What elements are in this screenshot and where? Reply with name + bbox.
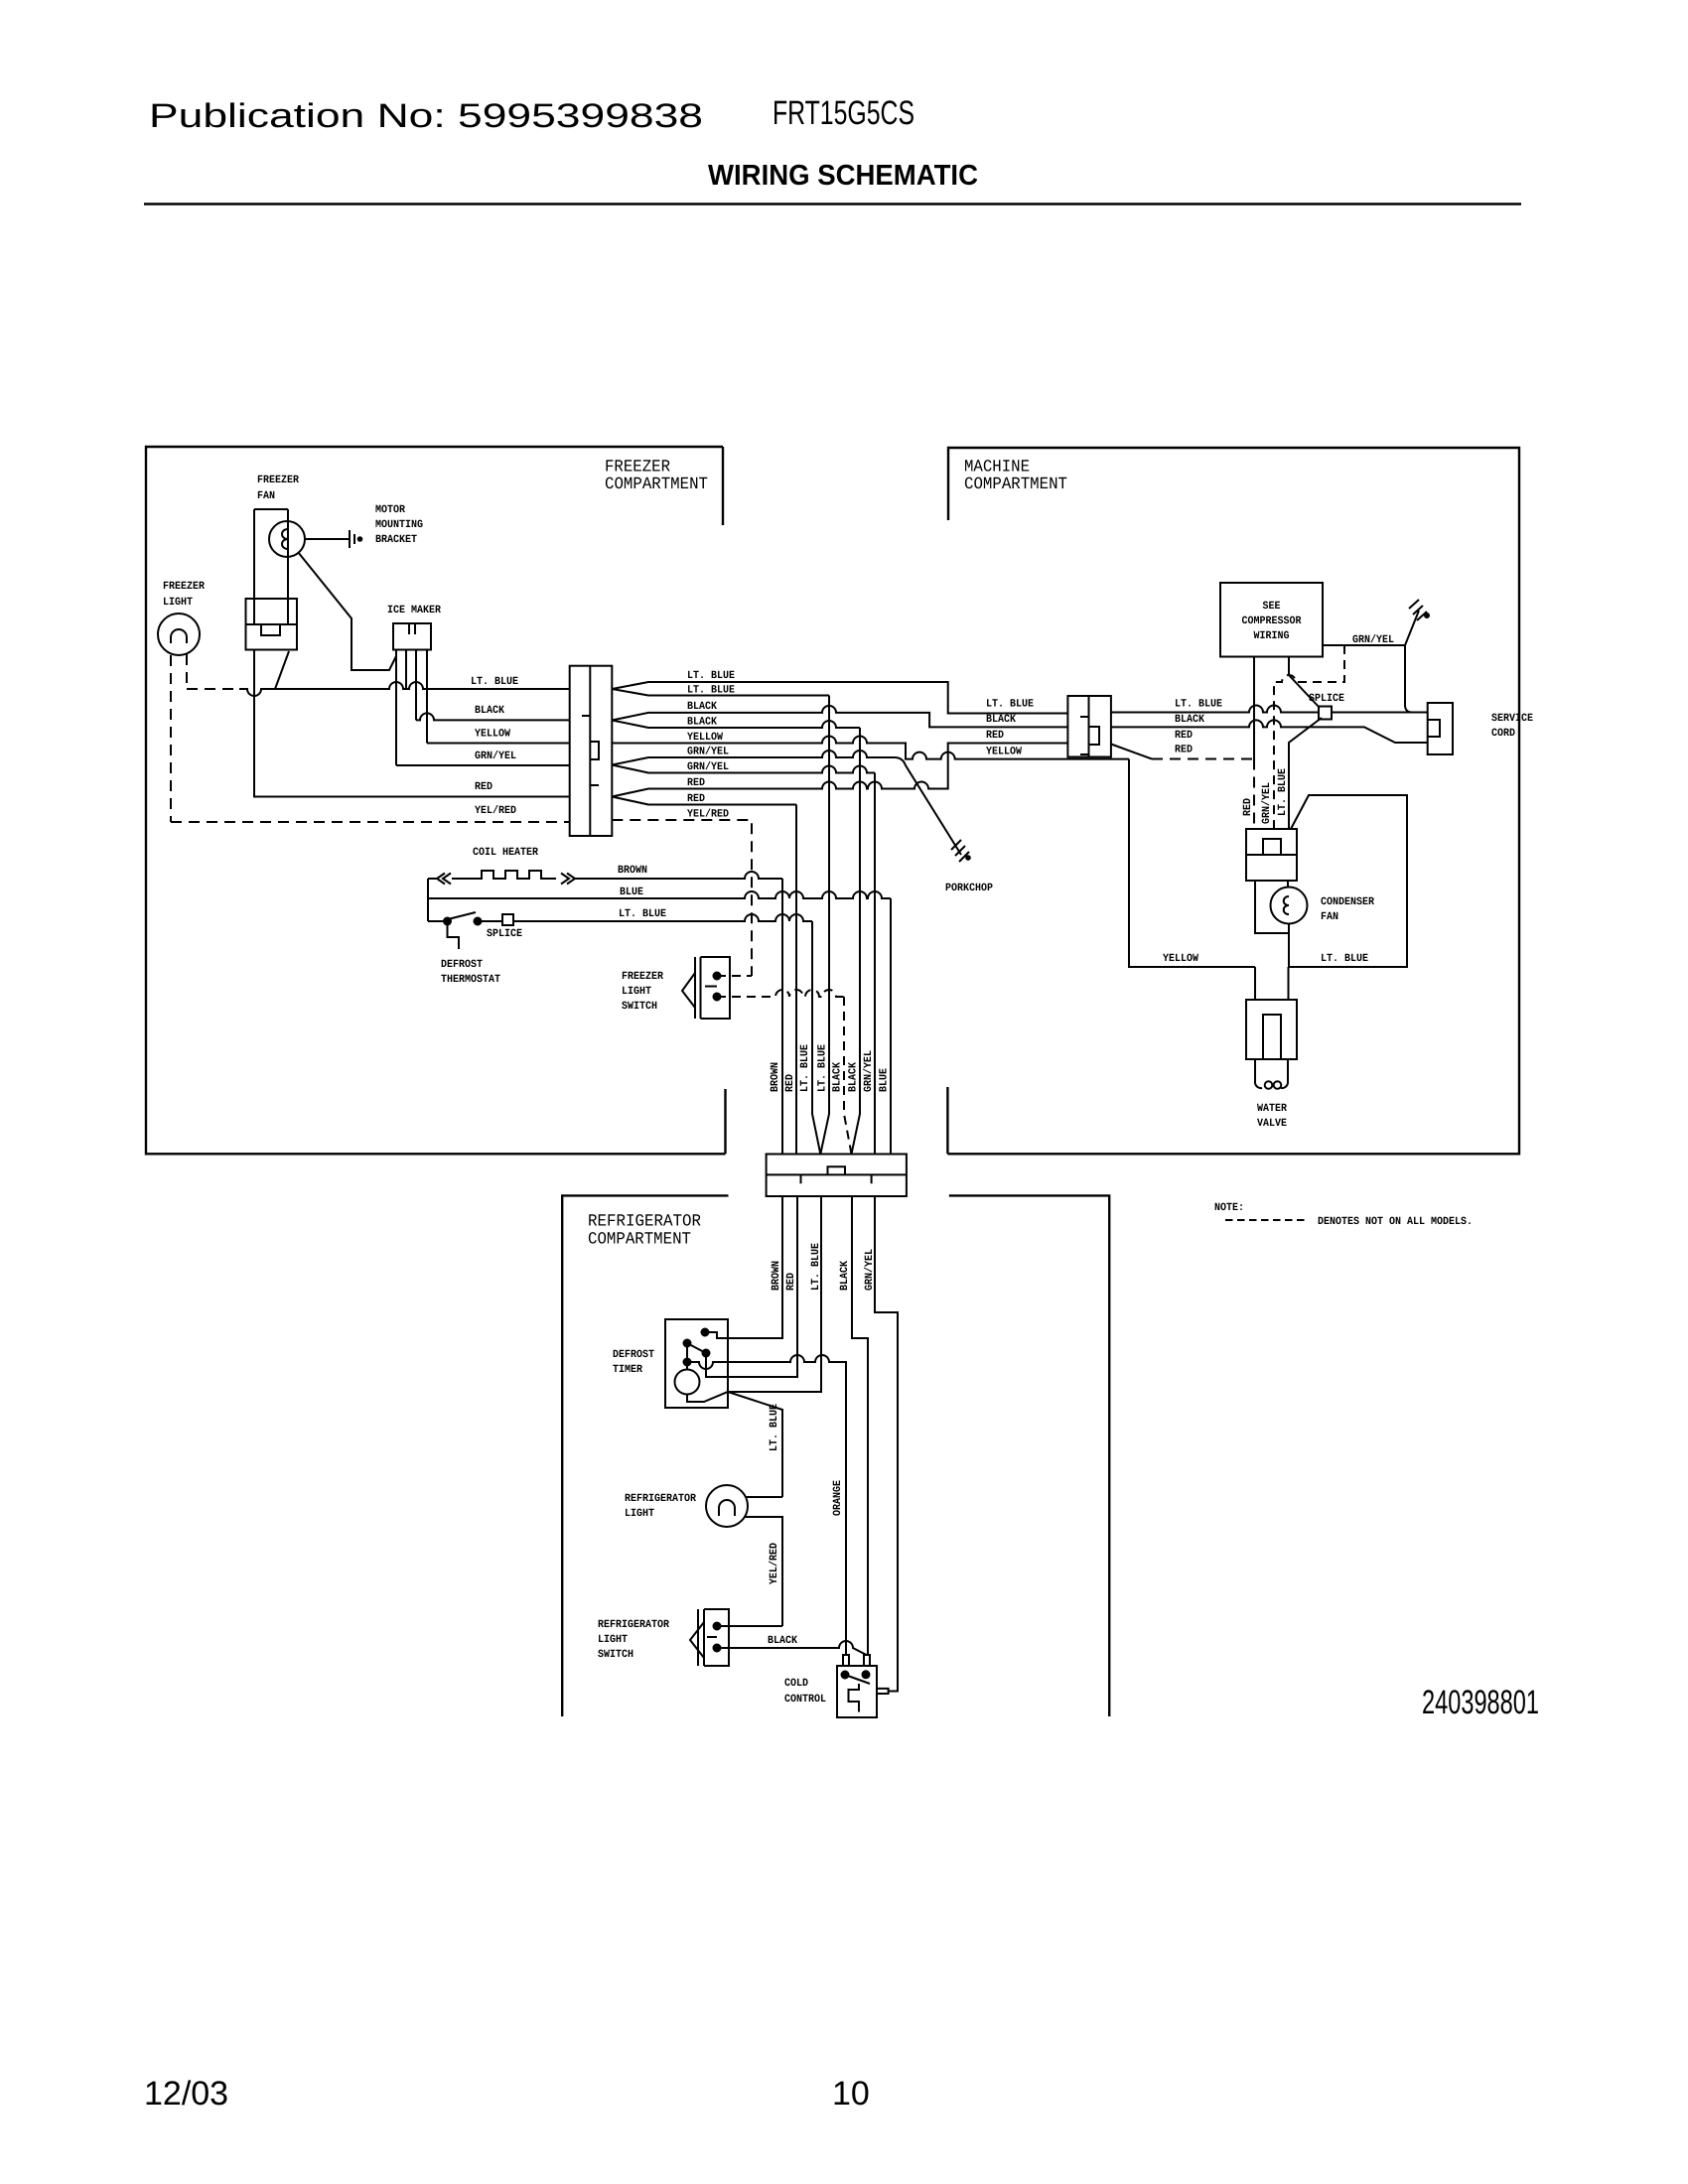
svg-text:SWITCH: SWITCH <box>622 1001 657 1013</box>
svg-text:BLACK: BLACK <box>839 1261 851 1291</box>
svg-text:FRT15G5CS: FRT15G5CS <box>773 94 914 132</box>
svg-text:LT. BLUE: LT. BLUE <box>1277 768 1289 816</box>
svg-text:YELLOW: YELLOW <box>1163 953 1198 965</box>
svg-text:RED: RED <box>687 777 705 789</box>
svg-text:LIGHT: LIGHT <box>625 1508 654 1520</box>
svg-text:Publication No: 5995399838: Publication No: 5995399838 <box>149 97 703 135</box>
svg-text:BLACK: BLACK <box>768 1635 797 1647</box>
svg-text:FAN: FAN <box>1321 911 1338 923</box>
svg-text:BROWN: BROWN <box>770 1062 781 1092</box>
svg-text:GRN/YEL: GRN/YEL <box>863 1050 875 1092</box>
svg-text:REFRIGERATOR: REFRIGERATOR <box>588 1213 701 1232</box>
svg-text:REFRIGERATOR: REFRIGERATOR <box>598 1619 669 1631</box>
svg-text:BLUE: BLUE <box>620 887 643 898</box>
svg-text:RED: RED <box>687 793 705 805</box>
svg-text:12/03: 12/03 <box>144 2075 228 2113</box>
svg-text:LIGHT: LIGHT <box>622 986 651 998</box>
svg-text:PORKCHOP: PORKCHOP <box>945 883 993 894</box>
svg-text:GRN/YEL: GRN/YEL <box>475 751 516 762</box>
svg-text:240398801: 240398801 <box>1422 1684 1539 1721</box>
svg-text:NOTE:: NOTE: <box>1214 1202 1244 1214</box>
svg-text:RED: RED <box>785 1273 797 1291</box>
svg-text:LIGHT: LIGHT <box>598 1634 628 1646</box>
svg-text:COMPRESSOR: COMPRESSOR <box>1242 615 1302 627</box>
svg-text:GRN/YEL: GRN/YEL <box>864 1249 876 1291</box>
svg-text:SERVICE: SERVICE <box>1491 713 1533 725</box>
svg-text:CONTROL: CONTROL <box>784 1694 826 1706</box>
svg-text:GRN/YEL: GRN/YEL <box>1352 634 1394 646</box>
svg-text:GRN/YEL: GRN/YEL <box>687 747 729 758</box>
svg-text:CONDENSER: CONDENSER <box>1321 896 1374 908</box>
svg-text:LT. BLUE: LT. BLUE <box>986 699 1034 711</box>
svg-text:BROWN: BROWN <box>771 1261 782 1291</box>
svg-text:WIRING SCHEMATIC: WIRING SCHEMATIC <box>708 160 978 192</box>
svg-text:YEL/RED: YEL/RED <box>475 805 516 817</box>
svg-text:BROWN: BROWN <box>618 865 647 877</box>
svg-text:YEL/RED: YEL/RED <box>687 809 729 821</box>
svg-text:RED: RED <box>1175 730 1193 742</box>
svg-text:REFRIGERATOR: REFRIGERATOR <box>625 1493 696 1505</box>
svg-text:FREEZER: FREEZER <box>622 971 663 983</box>
svg-text:LT. BLUE: LT. BLUE <box>687 670 735 682</box>
svg-text:BLACK: BLACK <box>687 701 717 713</box>
svg-text:YELLOW: YELLOW <box>475 729 510 741</box>
svg-text:10: 10 <box>832 2075 870 2113</box>
svg-text:LT. BLUE: LT. BLUE <box>769 1404 780 1451</box>
svg-text:FREEZER: FREEZER <box>163 581 205 593</box>
svg-text:BLACK: BLACK <box>832 1062 844 1092</box>
svg-text:GRN/YEL: GRN/YEL <box>1261 782 1273 824</box>
svg-text:RED: RED <box>784 1074 796 1092</box>
svg-text:VALVE: VALVE <box>1257 1118 1287 1130</box>
svg-text:RED: RED <box>986 730 1004 742</box>
svg-text:LT. BLUE: LT. BLUE <box>1175 699 1222 711</box>
svg-text:YEL/RED: YEL/RED <box>769 1543 780 1584</box>
svg-text:COLD: COLD <box>784 1678 808 1690</box>
svg-text:ORANGE: ORANGE <box>832 1480 844 1516</box>
svg-text:TIMER: TIMER <box>613 1364 642 1376</box>
svg-text:LT. BLUE: LT. BLUE <box>810 1243 822 1291</box>
svg-text:RED: RED <box>475 781 492 793</box>
svg-text:WATER: WATER <box>1257 1103 1287 1115</box>
svg-text:CORD: CORD <box>1491 728 1515 740</box>
svg-text:COMPARTMENT: COMPARTMENT <box>605 476 708 494</box>
svg-text:DENOTES NOT ON ALL MODELS.: DENOTES NOT ON ALL MODELS. <box>1318 1216 1473 1228</box>
svg-text:COMPARTMENT: COMPARTMENT <box>588 1231 691 1250</box>
svg-text:FREEZER: FREEZER <box>257 475 299 486</box>
svg-text:BLACK: BLACK <box>986 714 1016 726</box>
svg-text:MOUNTING: MOUNTING <box>375 519 423 531</box>
svg-text:ICE MAKER: ICE MAKER <box>387 605 441 616</box>
svg-text:BLACK: BLACK <box>1175 714 1204 726</box>
svg-text:THERMOSTAT: THERMOSTAT <box>441 974 500 986</box>
svg-text:FAN: FAN <box>257 490 275 502</box>
svg-text:BLACK: BLACK <box>848 1062 860 1092</box>
svg-text:FREEZER: FREEZER <box>605 459 670 478</box>
svg-text:DEFROST: DEFROST <box>441 959 483 971</box>
svg-text:WIRING: WIRING <box>1254 630 1290 642</box>
svg-text:SWITCH: SWITCH <box>598 1649 633 1661</box>
svg-text:LT. BLUE: LT. BLUE <box>619 908 666 920</box>
svg-text:DEFROST: DEFROST <box>613 1349 654 1361</box>
svg-text:RED: RED <box>1242 798 1254 816</box>
svg-text:BRACKET: BRACKET <box>375 534 417 546</box>
svg-text:LIGHT: LIGHT <box>163 597 193 609</box>
svg-text:LT. BLUE: LT. BLUE <box>799 1044 811 1092</box>
svg-text:COMPARTMENT: COMPARTMENT <box>964 476 1067 494</box>
svg-text:BLACK: BLACK <box>475 705 504 717</box>
svg-text:RED: RED <box>1175 745 1193 756</box>
svg-text:YELLOW: YELLOW <box>687 732 723 744</box>
svg-text:SPLICE: SPLICE <box>487 928 522 940</box>
svg-text:MACHINE: MACHINE <box>964 459 1030 478</box>
svg-text:SEE: SEE <box>1263 601 1281 613</box>
svg-text:MOTOR: MOTOR <box>375 504 405 516</box>
svg-text:BLUE: BLUE <box>879 1068 891 1092</box>
svg-text:LT. BLUE: LT. BLUE <box>817 1044 829 1092</box>
svg-text:YELLOW: YELLOW <box>986 747 1022 758</box>
svg-text:BLACK: BLACK <box>687 717 717 729</box>
svg-text:LT. BLUE: LT. BLUE <box>1321 953 1368 965</box>
svg-text:LT. BLUE: LT. BLUE <box>687 685 735 697</box>
svg-text:GRN/YEL: GRN/YEL <box>687 761 729 773</box>
svg-text:LT. BLUE: LT. BLUE <box>471 676 518 688</box>
svg-text:COIL HEATER: COIL HEATER <box>473 847 538 859</box>
